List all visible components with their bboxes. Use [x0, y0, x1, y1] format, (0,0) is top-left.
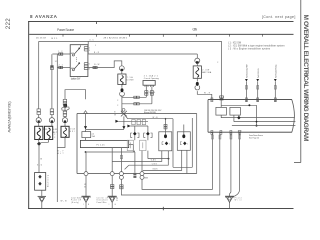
svg-text:DOME: DOME [127, 80, 135, 82]
block bottom edge [208, 131, 292, 133]
branch wire upper to junction chain [122, 96, 146, 98]
ignition switch label [71, 78, 81, 81]
ground symbol G2 [108, 196, 117, 208]
svg-text:GAS: GAS [151, 159, 157, 162]
svg-text:C&N: C&N [192, 28, 197, 32]
nested route: vertical from bus y118.7 down [172, 119, 174, 168]
page number 222 (left margin, rotated) [5, 18, 12, 29]
svg-text:B 2 1: B 2 1 [52, 38, 59, 40]
terminal labels inside switch [71, 52, 75, 70]
fuse element left (diamond + bracket) [131, 132, 139, 138]
relay box 1 inside block [216, 100, 227, 116]
ignition switch right connector upper [84, 46, 90, 52]
bus line y152 [85, 151, 135, 153]
block left edge [207, 100, 209, 133]
note text under block [249, 135, 263, 139]
connector circle AM2 [195, 58, 200, 64]
wire down to junction [117, 95, 122, 110]
riser from switch to B+ bus [87, 41, 89, 54]
svg-text:To ECU-IG: To ECU-IG [258, 68, 260, 78]
svg-text:222: 222 [5, 18, 12, 29]
fusible link parallelogram on x65 [62, 104, 69, 111]
nested route vertical x192.3 [191, 118, 193, 167]
drop 1 label (rotated) [247, 64, 249, 78]
svg-text:B-W: B-W [94, 64, 99, 66]
drop 3 wire [274, 79, 277, 102]
relay 1 output to bus y117.6 [221, 115, 295, 118]
ignition switch right connector lower [84, 63, 90, 71]
svg-text:To Back-Up SW: To Back-Up SW [247, 64, 249, 78]
stacked circles at x121.4 [119, 148, 123, 180]
svg-text:ALT: ALT [58, 152, 64, 155]
bus line y165.2 with riser to relay A [129, 151, 169, 166]
svg-text:Battery: Battery [47, 174, 50, 187]
connector circle on x65 [62, 116, 67, 122]
faint code row under header line [36, 37, 128, 39]
cross wire between drops [86, 129, 124, 131]
svg-text:W-R: W-R [204, 92, 211, 94]
svg-text:(Body): (Body) [71, 202, 79, 204]
svg-text:( 3 : W o Engine immobiliser s: ( 3 : W o Engine immobiliser system [228, 48, 270, 51]
svg-text:( 2 : IG1 SW With a type engi: ( 2 : IG1 SW With a type engine immobili… [228, 45, 285, 48]
upside down U from ignition area [65, 90, 86, 100]
svg-text:EFI: EFI [70, 131, 76, 133]
wire chain 2 corner from ignition feed [51, 54, 53, 109]
svg-text:AM2 30A: AM2 30A [202, 71, 212, 74]
svg-text:1: 1 [187, 143, 188, 145]
svg-text:5.0: 5.0 [37, 165, 43, 167]
fuse element right (diamond + bracket) [144, 132, 152, 138]
diagonal join to bus y165.2 [125, 165, 129, 169]
svg-text:2: 2 [217, 62, 218, 64]
ground bus corner riser x196.7 [196, 114, 198, 174]
svg-text:1: 1 [149, 92, 150, 94]
main junction bus line [77, 113, 197, 115]
splice diamond under AM2 fuse [196, 78, 199, 86]
connector circle under dome fuse [120, 92, 125, 96]
relay A feed from bus y118.7 [164, 118, 167, 135]
wire AM1 into ignition switch [52, 53, 70, 55]
mechanical link dashes [75, 57, 77, 62]
svg-text:7.5A: 7.5A [127, 76, 134, 79]
AM2 bus riser x221.5 [217, 41, 223, 100]
fuse AM2 [193, 63, 212, 78]
left margin title AVANZA (EM03Y0E) rotated [7, 101, 11, 133]
svg-text:1 2: 1 2 [58, 51, 62, 53]
svg-text:W-B: W-B [61, 201, 68, 203]
svg-text:AM1: AM1 [71, 52, 75, 55]
battery feed wire [38, 146, 40, 173]
fuse EFI (x65) [61, 123, 75, 138]
junction block left edge [76, 114, 78, 174]
relay body right [140, 140, 146, 150]
tiny code near chain 2 [55, 61, 57, 63]
corner down from IG1 wire [196, 54, 198, 58]
battery ground symbol [38, 190, 46, 208]
bus y121.6 [234, 115, 296, 122]
svg-text:To Heater Relay: To Heater Relay [275, 64, 278, 78]
relay B feed stub [183, 125, 185, 135]
labels on drop wires below block [212, 135, 241, 139]
ground G1 wire and label [84, 176, 86, 197]
svg-text:W-B: W-B [153, 117, 159, 119]
drop 2 label (rotated) [258, 68, 260, 78]
section title C&N [192, 28, 197, 32]
svg-text:CNG: CNG [152, 163, 158, 165]
dark connector at x134.9 [133, 152, 136, 178]
ground symbol G1 [82, 196, 91, 208]
branch wire lower to junction chain [122, 103, 152, 105]
header 8 AVANZA [30, 14, 58, 19]
pin marks on block bottom [211, 131, 241, 135]
relay A box (two diamonds) [159, 132, 172, 151]
engine type note above bus [144, 110, 162, 114]
connector pair on x65 [63, 99, 66, 104]
svg-text:GAS: GAS [152, 168, 158, 171]
connector circle chain 2 [49, 115, 54, 123]
svg-text:15A: 15A [70, 128, 76, 131]
bus wire B+ top [39, 40, 222, 42]
right band title M OVERALL ELECTRICAL WIRING DIAGRAM rotated [302, 15, 309, 143]
connector circle on dome fuse feed [119, 66, 124, 71]
battery label [47, 174, 50, 187]
svg-text:Panel Wire: Panel Wire [97, 201, 107, 204]
dark connector on chain 2 [50, 65, 53, 69]
notes text block (3 lines, top right) [228, 42, 285, 50]
junction circle G2 with tee [110, 148, 114, 176]
splice diamond under dome fuse [121, 85, 124, 93]
drop 2 wire [256, 79, 259, 102]
drop 1 wire [245, 79, 248, 102]
feed drop right with arrowhead [122, 116, 125, 129]
junction circle G1 [84, 152, 88, 176]
feed drop left with arrowhead [84, 114, 87, 130]
ground G1 text [71, 198, 90, 206]
merge junction below fuses [37, 140, 49, 147]
bus line y161.4 with riser to relay A [112, 151, 162, 162]
fuse chain label left [54, 134, 55, 139]
stacked circles at x142 [140, 151, 148, 180]
svg-text:M OVERALL ELECTRICAL WIRING D: M OVERALL ELECTRICAL WIRING DIAGRAM [302, 15, 309, 143]
page connector bracket [292, 100, 295, 133]
small label above block bottom left [238, 130, 242, 132]
svg-text:B-R: B-R [94, 52, 100, 54]
relay box 2 inside block [230, 107, 241, 115]
bus line y158.6 [148, 158, 170, 160]
wire IG1 right segment [88, 52, 197, 54]
svg-text:2: 2 [54, 134, 55, 136]
wire AM2 left segment [57, 67, 70, 69]
svg-text:8 AVANZA: 8 AVANZA [30, 14, 58, 19]
ground symbol G3 [225, 196, 234, 208]
route from x121.4 to right block [120, 132, 220, 195]
wire from AM2 to block [197, 91, 212, 100]
relay feed arrow and wire [127, 125, 147, 133]
AM box [143, 75, 159, 86]
svg-text:0.5: 0.5 [90, 39, 94, 41]
block top edge [208, 99, 292, 101]
svg-text:Power Source: Power Source [57, 28, 74, 32]
route from x142 to right block [142, 132, 212, 189]
long ground wire vertical [56, 54, 58, 202]
connector circle chain 1 [36, 115, 41, 123]
ignition switch box [70, 45, 88, 77]
bus y125.6 [232, 125, 296, 127]
frame left edge [28, 21, 30, 208]
svg-text:2: 2 [117, 100, 118, 102]
svg-text:2 1 15A 2 1: 2 1 15A 2 1 [144, 75, 159, 78]
connector pair on chain 1 [37, 109, 41, 115]
frame bottom line [28, 207, 293, 211]
svg-text:1: 1 [95, 45, 96, 47]
svg-text:3: 3 [89, 50, 90, 52]
ground G3 text [235, 197, 243, 202]
section title Power Source [57, 28, 74, 32]
header row line under Power Source [29, 34, 293, 37]
comb connector strip [115, 120, 148, 125]
relay 2 output with diamond [237, 115, 240, 119]
nested route horizontal y167.3 [173, 166, 192, 168]
svg-text:Wire: Wire [235, 199, 242, 202]
ignition switch lower contact [72, 62, 80, 71]
svg-text:[Cont. next page]: [Cont. next page] [262, 15, 296, 19]
delta node on bus [84, 111, 88, 114]
AM box right drop with connector [150, 87, 155, 104]
wire chain 1 vertical [38, 41, 40, 109]
label at left wire bottom [58, 151, 65, 156]
AM box left drop with connector [145, 87, 150, 97]
svg-text:1-1: 1-1 [238, 130, 242, 132]
relay pin drops [135, 136, 148, 159]
fuse FL MAIN (chain 1) [35, 123, 43, 140]
right band divider line [294, 0, 301, 163]
fuse FL ALT (chain 2) [45, 123, 53, 140]
inline connector on ST wire [93, 66, 97, 68]
svg-text:2.0W: 2.0W [202, 69, 209, 71]
bus line y170.4 with riser to relay B [143, 150, 182, 170]
header [Cont. next page] [262, 15, 296, 19]
ground G3 wire [230, 132, 231, 196]
wire from EFI fuse down to ground vertical [57, 137, 65, 147]
long junction box [80, 138, 128, 148]
bus y118.7 from X junction [124, 114, 173, 119]
fuse DOME [118, 71, 135, 85]
svg-text:FL 1.25: FL 1.25 [97, 144, 106, 146]
main ground bus line [77, 173, 197, 175]
battery box [35, 173, 46, 191]
pin marks on block top [211, 98, 276, 102]
inline connector on AM2 left wire [59, 65, 63, 69]
svg-text:Ignition SW: Ignition SW [71, 78, 81, 81]
svg-text:See Page 24: See Page 24 [249, 137, 259, 139]
inline connector on AM1 wire [58, 51, 62, 55]
relay B right pin to ground bus [186, 150, 188, 173]
ground G3 arc wire [232, 132, 239, 197]
svg-text:4: 4 [89, 69, 90, 71]
internal bus y105.3 [221, 104, 257, 126]
svg-text:2 1: 2 1 [59, 65, 63, 67]
relay body left [127, 140, 133, 150]
relay B box [177, 132, 190, 151]
ground label [61, 201, 68, 203]
fuse labels [43, 129, 58, 134]
svg-text:Circuit Opening: Circuit Opening [144, 77, 159, 80]
svg-text:1: 1 [89, 64, 90, 66]
connector pair on chain 2 [50, 109, 54, 115]
ground G2 wire with connector [111, 176, 114, 197]
svg-text:1: 1 [169, 143, 170, 145]
X junction on main bus [114, 109, 127, 117]
drop 3 label (rotated) [275, 64, 278, 78]
svg-text:2: 2 [54, 137, 55, 139]
svg-text:2D 25 1E: 2D 25 1E [36, 38, 47, 40]
ignition switch upper contact [72, 45, 80, 56]
AM box pin hatches [145, 85, 154, 87]
svg-text:AM2: AM2 [71, 67, 75, 70]
svg-text:2: 2 [117, 105, 118, 107]
connector pair 2 on x65 [63, 105, 66, 117]
svg-text:AVANZA (EM03Y0E): AVANZA (EM03Y0E) [7, 101, 11, 133]
battery wire label [37, 159, 43, 167]
small fuse box [82, 130, 96, 138]
frame top line [28, 21, 293, 24]
svg-text:1J: 1J [55, 61, 57, 63]
link from long box to relay drop [129, 145, 134, 153]
svg-text:(Except 1SZ-FE): (Except 1SZ-FE) [144, 111, 156, 114]
wire ST right segment with jog [88, 61, 122, 68]
svg-text:4: 4 [154, 92, 155, 94]
svg-text:2E 1 B2 25 D1 1E 2B 5: 2E 1 B2 25 D1 1E 2B 5 [104, 37, 128, 39]
wire size label on B+ bus [90, 39, 97, 47]
svg-text:( 1 : IG2 SW: ( 1 : IG2 SW [228, 42, 242, 44]
connector circle under AM2 [195, 86, 200, 90]
ground G2 text [97, 197, 119, 206]
